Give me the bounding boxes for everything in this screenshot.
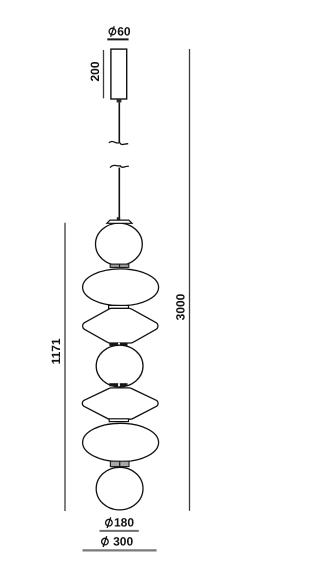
svg-text:200: 200 — [88, 61, 102, 81]
svg-text:1171: 1171 — [49, 338, 63, 364]
svg-text:300: 300 — [113, 535, 133, 549]
svg-text:60: 60 — [117, 25, 131, 39]
svg-text:3000: 3000 — [174, 293, 188, 320]
svg-text:180: 180 — [114, 516, 134, 530]
